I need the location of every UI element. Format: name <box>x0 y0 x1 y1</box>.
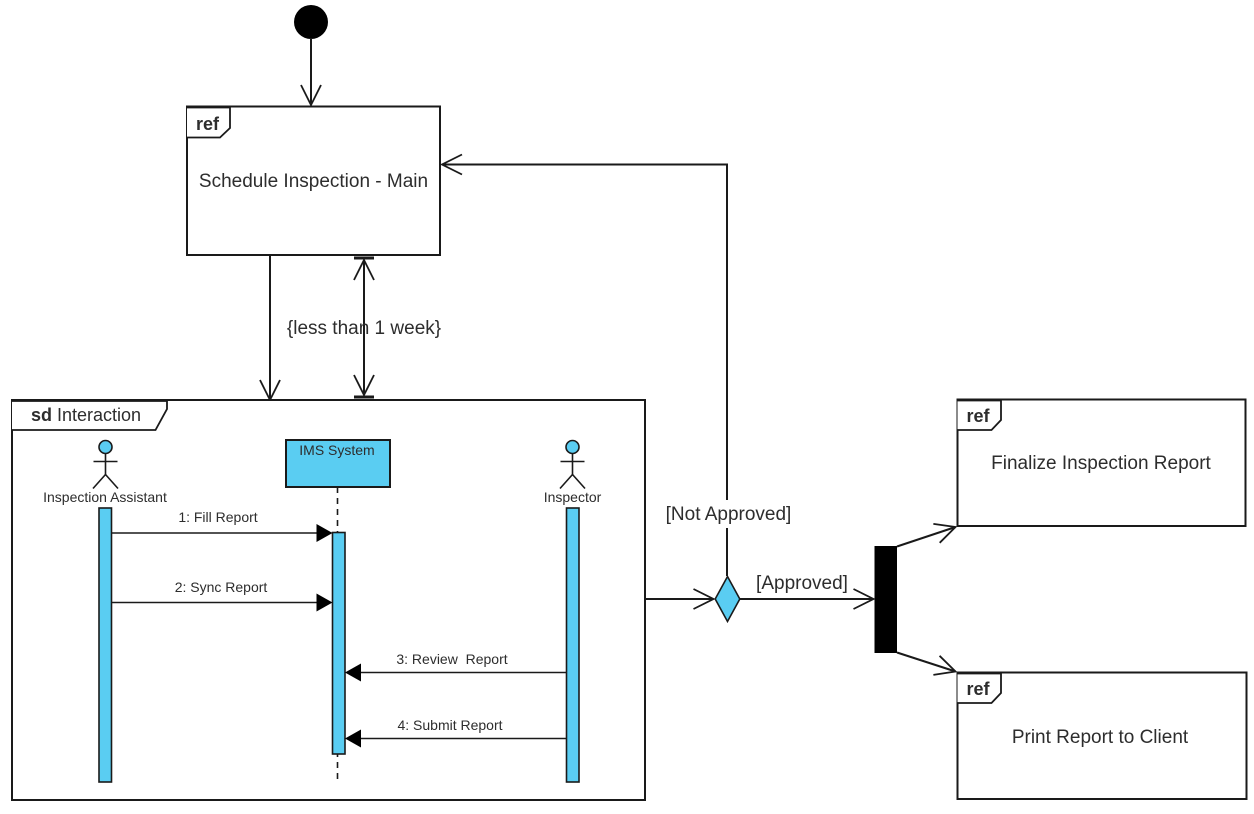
svg-text:[Approved]: [Approved] <box>756 573 848 594</box>
wire: fork to Print Report to Client <box>897 653 956 672</box>
wire: Schedule frame to sd frame (control flow) <box>269 256 271 400</box>
sd frame: Interaction <box>12 400 645 800</box>
message 1: Fill Report <box>112 509 333 542</box>
lifeline activation bar: Inspector <box>567 508 580 782</box>
lifeline activation bar: Inspection Assistant <box>99 508 112 782</box>
wire: initial node to Schedule frame <box>310 38 312 105</box>
message 2: Sync Report <box>112 579 333 612</box>
decision node (diamond) <box>715 577 740 622</box>
wire: [Not Approved] back-edge (diamond top up and left into Schedule frame) <box>442 165 727 577</box>
ref frame: Print Report to Client <box>958 673 1247 800</box>
actor: Inspection Assistant <box>43 441 167 506</box>
svg-text:ref: ref <box>967 679 991 699</box>
svg-text:[Not Approved]: [Not Approved] <box>666 504 792 525</box>
svg-text:Inspection Assistant: Inspection Assistant <box>43 489 167 505</box>
node label: [Not Approved] <box>660 500 797 528</box>
object: IMS System <box>286 440 390 487</box>
lifeline (dashed): IMS System <box>337 487 339 782</box>
svg-text:Finalize Inspection Report: Finalize Inspection Report <box>991 453 1211 474</box>
ref frame: Finalize Inspection Report <box>958 400 1246 527</box>
svg-text:Print Report to Client: Print Report to Client <box>1012 727 1189 748</box>
message 3: Review Report <box>345 651 567 682</box>
fork bar <box>875 546 898 653</box>
svg-text:4: Submit Report: 4: Submit Report <box>397 717 502 733</box>
svg-text:3: Review Report: 3: Review Report <box>396 651 507 667</box>
svg-text:Inspector: Inspector <box>544 489 602 505</box>
svg-text:1: Fill Report: 1: Fill Report <box>178 509 257 525</box>
wire: fork to Finalize Inspection Report <box>897 527 956 547</box>
svg-text:ref: ref <box>196 114 220 134</box>
svg-text:sd Interaction: sd Interaction <box>31 405 141 425</box>
svg-text:2: Sync Report: 2: Sync Report <box>175 579 268 595</box>
wire: diamond to fork bar <box>740 598 874 600</box>
lifeline activation bar: IMS System <box>333 533 346 755</box>
initial node <box>294 5 328 39</box>
svg-text:ref: ref <box>967 406 991 426</box>
svg-text:Schedule Inspection - Main: Schedule Inspection - Main <box>199 171 428 192</box>
wire: duration constraint double arrow <box>354 257 374 399</box>
actor: Inspector <box>544 441 602 506</box>
message 4: Submit Report <box>345 717 567 748</box>
wire: sd frame to decision diamond <box>645 598 714 600</box>
ref frame: Schedule Inspection - Main <box>187 107 440 256</box>
svg-text:{less than 1 week}: {less than 1 week} <box>287 318 441 339</box>
svg-text:IMS System: IMS System <box>299 442 374 458</box>
